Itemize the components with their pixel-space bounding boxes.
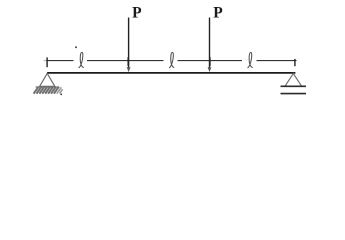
dimension tick 4	[294, 59, 296, 66]
dimension tick 2	[127, 57, 129, 66]
roller support lower ground line	[281, 93, 307, 95]
length label l2	[169, 52, 173, 67]
dimension tick 3	[209, 57, 211, 66]
pinned support hatching light tail	[57, 87, 63, 93]
pinned support hatch top line	[36, 86, 60, 88]
svg-text:P: P	[132, 5, 142, 22]
dimension stub left of first tick	[44, 60, 47, 62]
beam	[47, 72, 295, 74]
roller support upper ground line	[281, 85, 307, 87]
force P2 arrowhead	[208, 67, 212, 72]
force P1 arrow shaft	[128, 18, 130, 69]
pinned support hatching	[34, 87, 59, 94]
label P2	[213, 5, 223, 22]
svg-text:P: P	[213, 5, 223, 22]
pinned support triangle (left)	[40, 73, 55, 86]
dimension tick 1	[46, 57, 48, 67]
force P2 arrow shaft	[209, 18, 211, 69]
length label l3	[248, 52, 252, 67]
roller support triangle (right)	[285, 74, 301, 86]
dimension line segment 1	[47, 60, 74, 62]
force P1 arrowhead	[127, 67, 131, 72]
dimension line segment 4	[257, 60, 297, 62]
dimension line segment 2	[87, 60, 164, 62]
length label l1	[79, 52, 83, 67]
label P1	[132, 5, 142, 22]
dimension line segment 3	[178, 60, 243, 62]
speck below hatch	[60, 94, 62, 96]
stray dot artifact	[75, 46, 77, 48]
